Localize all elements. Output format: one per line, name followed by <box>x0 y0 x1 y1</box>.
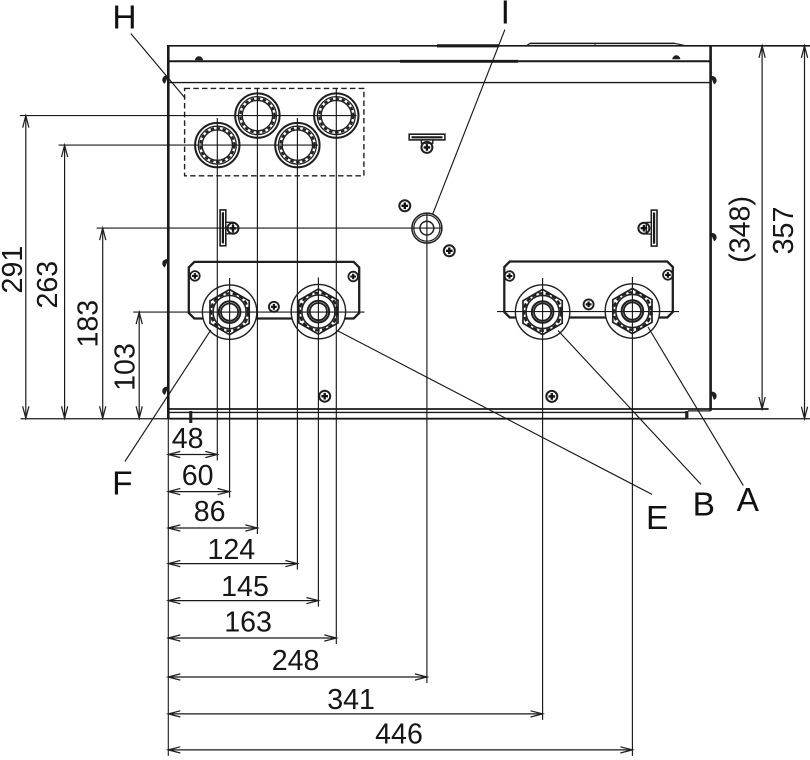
knockout area H dashed box <box>185 88 364 175</box>
svg-text:263: 263 <box>32 261 64 309</box>
extension line port I vertical <box>426 213 428 683</box>
svg-text:103: 103 <box>110 343 142 391</box>
extension line pipe B <box>542 278 544 720</box>
unit body left edge <box>167 46 170 419</box>
svg-text:(348): (348) <box>725 196 757 263</box>
dimension (348) (right) <box>725 46 766 409</box>
pipe A fitting detail <box>613 288 652 333</box>
leader E <box>338 331 652 494</box>
leader B <box>558 331 701 485</box>
svg-text:I: I <box>501 0 510 32</box>
leader F <box>125 330 211 462</box>
centerline port I horizontal <box>97 227 442 229</box>
seam screw bump left <box>195 56 203 60</box>
dimension 183 (left) <box>73 228 106 418</box>
right edge weld bump 1 <box>711 76 717 84</box>
dimension 145 (bottom) <box>168 571 318 604</box>
extension line grommet H3 <box>296 118 298 570</box>
leader I <box>433 30 505 215</box>
svg-text:341: 341 <box>327 684 375 716</box>
dimension 291 (left) <box>0 116 29 419</box>
pipe B face <box>515 285 569 339</box>
right hanger bracket <box>646 210 657 246</box>
svg-text:446: 446 <box>375 719 423 751</box>
dimension 124 (bottom) <box>168 534 297 567</box>
svg-text:B: B <box>693 487 715 524</box>
base plate top line <box>170 411 687 413</box>
dimension 248 (bottom) <box>168 645 427 680</box>
left edge weld bump 1 <box>162 75 168 83</box>
left edge weld bump 2 <box>162 259 168 267</box>
left plate screw 1 <box>190 271 200 281</box>
right connection plate <box>504 262 673 318</box>
left plate screw 2 <box>348 272 358 282</box>
svg-text:60: 60 <box>182 460 214 492</box>
centerline left pipes horizontal <box>133 311 364 313</box>
dimension 357 (right) <box>768 46 807 419</box>
seam screw bump right <box>672 55 680 59</box>
panel screw upper-left of port I <box>399 200 410 211</box>
base right step line <box>688 410 711 412</box>
pipe E fitting detail <box>299 289 338 334</box>
unit body bottom edge <box>167 408 769 410</box>
svg-text:291: 291 <box>0 246 29 294</box>
right edge weld bump 2 <box>711 233 717 241</box>
left connection plate <box>189 262 359 319</box>
dimension 60 (bottom) <box>168 460 229 495</box>
centerline grommet bottom row <box>59 144 318 146</box>
dimension 48 (bottom) <box>168 423 217 457</box>
extension line pipe A <box>631 277 633 756</box>
panel screw bottom left <box>319 391 330 402</box>
dimension 341 (bottom) <box>168 684 542 717</box>
right plate screw 2 <box>663 270 673 280</box>
leader H <box>131 34 185 99</box>
right edge weld bump 3 <box>711 392 717 400</box>
dimension 163 (bottom) <box>168 606 336 641</box>
knockout grommet H4 <box>314 93 358 137</box>
dimension 263 (left) <box>32 145 68 418</box>
right plate mid screw <box>584 299 594 309</box>
svg-text:357: 357 <box>768 207 800 255</box>
left edge weld bump 3 <box>162 387 168 395</box>
unit body top seam line <box>168 60 710 62</box>
svg-text:124: 124 <box>207 534 255 566</box>
pipe B fitting detail <box>523 289 562 334</box>
knockout grommet H2 <box>235 93 279 137</box>
svg-text:H: H <box>112 0 136 36</box>
left hanger bracket <box>220 210 233 246</box>
extension line pipe E <box>317 278 319 607</box>
base left foot <box>189 411 192 423</box>
extension line pipe F <box>229 278 231 498</box>
svg-text:183: 183 <box>73 300 105 348</box>
panel screw bottom right <box>546 391 557 402</box>
unit body right edge <box>709 46 712 411</box>
knockout grommet H1 <box>195 123 239 167</box>
centerline right pipes horizontal <box>497 311 679 313</box>
left hanger bracket screw <box>228 223 239 234</box>
svg-text:F: F <box>112 466 132 503</box>
knockout grommet H3 <box>275 123 319 167</box>
right hanger bracket screw <box>638 223 649 234</box>
pipe A face <box>605 284 659 338</box>
svg-text:E: E <box>646 500 668 537</box>
pipe F face <box>202 285 256 339</box>
port I (stud) <box>412 213 442 243</box>
dimension 446 (bottom) <box>168 719 632 754</box>
svg-text:145: 145 <box>221 571 269 603</box>
svg-text:248: 248 <box>272 645 320 677</box>
svg-text:86: 86 <box>194 496 226 528</box>
extension line grommet H4 <box>335 89 337 644</box>
leader A <box>648 327 743 486</box>
extension line grommet H2 <box>256 89 258 534</box>
svg-text:163: 163 <box>224 606 272 638</box>
right plate screw 1 <box>505 271 515 281</box>
centerline grommet top row <box>20 115 357 117</box>
top hanger bracket <box>409 134 445 143</box>
unit body upper panel line <box>168 82 710 84</box>
extension line body left reference <box>167 419 169 756</box>
top lip <box>527 43 687 45</box>
svg-text:A: A <box>737 482 760 519</box>
base plate bottom line <box>21 418 810 420</box>
left plate mid screw <box>269 302 279 312</box>
dimension 86 (bottom) <box>168 496 257 531</box>
panel screw lower-right of port I <box>444 245 455 256</box>
top hanger bracket screw <box>421 142 432 153</box>
pipe E face <box>291 284 345 338</box>
extension line grommet H1 <box>216 118 218 461</box>
base right foot <box>685 411 688 420</box>
unit body top edge <box>167 45 810 47</box>
dimension 103 (left) <box>110 312 143 418</box>
pipe F fitting detail <box>210 290 249 335</box>
svg-text:48: 48 <box>172 423 204 455</box>
